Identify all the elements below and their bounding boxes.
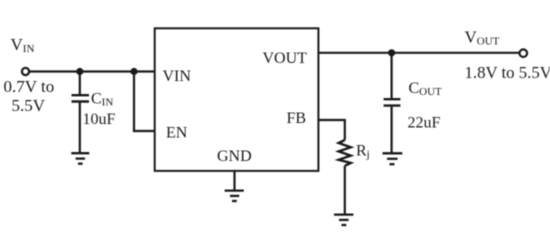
wire FB branch — [318, 120, 344, 140]
wire COUT top lead — [391, 53, 393, 98]
node VOUT output terminal — [520, 49, 528, 57]
svg-text:VIN: VIN — [11, 35, 35, 55]
wire EN branch — [134, 72, 155, 132]
svg-text:VOUT: VOUT — [465, 28, 500, 48]
svg-text:VIN: VIN — [163, 68, 192, 85]
pin label VOUT — [263, 50, 308, 67]
capacitor CIN — [72, 95, 90, 101]
pin label VIN — [163, 68, 192, 85]
wire Rj bottom lead — [344, 166, 346, 214]
pin label GND — [217, 148, 252, 165]
svg-text:1.8V to 5.5V: 1.8V to 5.5V — [465, 63, 550, 82]
node VIN input terminal — [22, 68, 29, 75]
svg-text:COUT: COUT — [409, 80, 443, 98]
svg-text:EN: EN — [166, 125, 188, 142]
ground under Rj — [334, 215, 353, 225]
ground under CIN — [71, 153, 89, 164]
node junction input/CIN — [76, 68, 83, 75]
capacitor COUT — [384, 99, 401, 105]
wire COUT bottom lead — [391, 107, 393, 153]
label input voltage range line 2 — [12, 96, 46, 115]
svg-text:10uF: 10uF — [83, 111, 116, 128]
wire CIN top lead — [79, 72, 81, 95]
resistor Rj — [339, 140, 351, 166]
wire CIN bottom lead — [79, 103, 81, 153]
svg-text:CIN: CIN — [91, 91, 113, 109]
label VIN net name — [11, 35, 35, 55]
svg-text:GND: GND — [217, 148, 252, 165]
ground under COUT — [383, 153, 403, 164]
label COUT — [409, 80, 443, 98]
svg-text:0.7V to: 0.7V to — [4, 77, 55, 96]
pin label EN — [166, 125, 188, 142]
svg-text:FB: FB — [287, 110, 307, 127]
svg-text:Rj: Rj — [356, 143, 370, 161]
label COUT value 22uF — [408, 115, 441, 132]
label input voltage range line 1 — [4, 77, 55, 96]
pin label FB — [287, 110, 307, 127]
op-amp U1 regulator box — [155, 28, 319, 171]
label CIN value 10uF — [83, 111, 116, 128]
svg-text:5.5V: 5.5V — [12, 96, 46, 115]
wire input rail from terminal to VIN pin — [29, 70, 155, 72]
label VOUT net name — [465, 28, 500, 48]
svg-text:VOUT: VOUT — [263, 50, 308, 67]
wire GND pin lead — [233, 171, 235, 190]
node junction input/EN — [130, 68, 137, 75]
label output voltage range — [465, 63, 550, 82]
label CIN — [91, 91, 113, 109]
ground under U1 — [225, 191, 244, 201]
svg-text:22uF: 22uF — [408, 115, 441, 132]
wire output rail from VOUT pin to terminal — [318, 52, 519, 54]
label Rj — [356, 143, 370, 161]
node junction output/COUT — [388, 49, 395, 56]
